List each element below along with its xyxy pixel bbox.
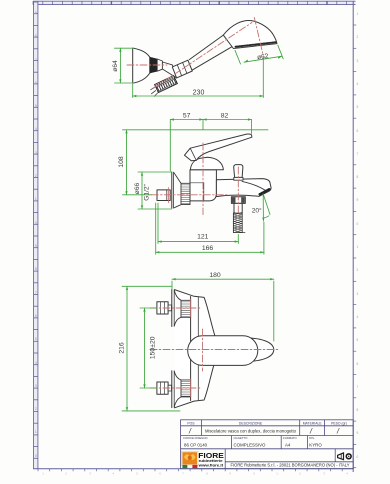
svg-text:0: 0 (35, 221, 37, 225)
svg-text:PESO (gr): PESO (gr) (331, 421, 347, 425)
left ruler digits (35, 11, 37, 458)
svg-text:www.fiore.it: www.fiore.it (197, 463, 223, 468)
spout outlet face (tilted, dark) (260, 189, 270, 194)
red tick bottom union (190, 379, 192, 397)
svg-text:9: 9 (35, 11, 37, 15)
svg-text:82: 82 (221, 112, 229, 119)
svg-text:DESCRIZIONE: DESCRIZIONE (239, 421, 263, 425)
dim 108 (123, 130, 269, 195)
projection symbol icons (338, 453, 352, 460)
braided hose (233, 213, 242, 232)
svg-text:1: 1 (35, 197, 37, 201)
svg-text:6: 6 (35, 314, 37, 318)
lever knob capsule (front) (188, 336, 258, 366)
svg-text:3: 3 (357, 292, 359, 296)
diverter knob (234, 165, 243, 178)
svg-text:20°: 20° (252, 207, 262, 215)
svg-text:4: 4 (357, 82, 359, 86)
svg-text:8: 8 (357, 175, 359, 179)
svg-text:8: 8 (35, 34, 37, 38)
svg-text:7: 7 (35, 291, 37, 295)
FIORE logo (181, 451, 223, 468)
red centerline along shower handle axis (153, 23, 252, 89)
svg-text:2: 2 (35, 174, 37, 178)
red main axis horizontal (150, 349, 278, 351)
svg-text:57: 57 (183, 112, 191, 119)
svg-text:G1/2”: G1/2” (144, 184, 151, 201)
svg-text:4: 4 (35, 361, 37, 365)
dim 150+-20 (140, 308, 157, 388)
hose nipple cylinder (234, 203, 242, 213)
svg-text:5: 5 (357, 105, 359, 109)
red vertical through knob (202, 329, 204, 371)
bottom wall union (157, 371, 191, 408)
svg-text:86 CP 0140: 86 CP 0140 (184, 442, 208, 447)
svg-text:5: 5 (35, 337, 37, 341)
red axis top union (150, 307, 200, 309)
svg-text:7: 7 (35, 58, 37, 62)
svg-text:POS: POS (187, 421, 195, 425)
border frame bottom line (33, 469, 354, 472)
svg-text:ø64: ø64 (112, 60, 119, 72)
svg-text:ø66: ø66 (134, 182, 141, 194)
svg-text:7: 7 (357, 152, 359, 156)
svg-text:9: 9 (35, 244, 37, 248)
cone adapter (157, 59, 162, 71)
title block texts (183, 421, 347, 440)
svg-text:1: 1 (357, 12, 359, 16)
red centerline diverter/hose vertical (237, 167, 239, 215)
red axis bottom union (150, 387, 200, 389)
svg-text:9: 9 (357, 198, 359, 202)
svg-text:CODICE DISEGNO: CODICE DISEGNO (183, 436, 208, 440)
handle shaft (189, 35, 223, 60)
mixer body silhouette (front/rotated view) (175, 290, 274, 408)
svg-text:MATERIALE: MATERIALE (303, 421, 323, 425)
top wall union (157, 290, 191, 327)
svg-text:5: 5 (35, 104, 37, 108)
spout (216, 179, 271, 197)
handle grip stub in cup (162, 62, 176, 78)
hose connection nut (231, 197, 245, 204)
svg-text:150±20: 150±20 (150, 336, 157, 359)
svg-text:8: 8 (357, 408, 359, 412)
red centerline wall pipe axis (151, 194, 228, 196)
wall escutcheon bell (171, 172, 173, 208)
svg-text:121: 121 (197, 234, 209, 241)
svg-text:2: 2 (35, 407, 37, 411)
svg-text:6: 6 (357, 362, 359, 366)
mixer body (190, 170, 216, 201)
svg-text:5: 5 (357, 338, 359, 342)
spray face dark band (236, 42, 276, 47)
conical wall support cup (133, 48, 150, 83)
hose nut on handle (172, 60, 192, 78)
bottom ruler digits (42, 471, 348, 475)
threaded nipple (hatched) (181, 183, 190, 204)
dim 180 (172, 279, 274, 341)
svg-text:8: 8 (35, 267, 37, 271)
red centerline horizontal through conical support (127, 64, 167, 66)
svg-text:3: 3 (35, 384, 37, 388)
svg-text:1: 1 (357, 245, 359, 249)
svg-text:180: 180 (209, 272, 221, 279)
dim 121 (158, 203, 238, 244)
red centerline body vertical (202, 143, 204, 215)
svg-text:0: 0 (35, 454, 37, 458)
lever handle (185, 134, 252, 161)
right ruler digits (357, 12, 359, 459)
svg-text:0: 0 (357, 455, 359, 459)
svg-text:0: 0 (357, 222, 359, 226)
svg-text:Miscelatore vasca con duplex,: Miscelatore vasca con duplex, doccia mon… (205, 429, 297, 434)
svg-text:6: 6 (357, 129, 359, 133)
dim 166 (156, 203, 264, 254)
dim o62 (235, 45, 283, 64)
border frame right line (353, 1, 356, 472)
svg-text:2: 2 (357, 35, 359, 39)
dim 216 (122, 286, 180, 411)
title block grid (181, 420, 354, 469)
dim 20 degrees (263, 194, 270, 221)
svg-text:7: 7 (357, 385, 359, 389)
svg-text:FORMATO: FORMATO (283, 436, 298, 440)
G1/2 wall connector square (157, 190, 170, 201)
svg-text:4: 4 (35, 127, 37, 131)
svg-text:DIS.: DIS. (309, 436, 315, 440)
svg-text:230: 230 (193, 90, 205, 97)
dim 230 (133, 57, 264, 98)
red centerline shower head axis (254, 18, 263, 55)
dim 57 and 82 (170, 120, 251, 172)
red tick top union (190, 299, 192, 317)
svg-text:3: 3 (35, 151, 37, 155)
border frame left ruler (34, 1, 38, 468)
cartridge dome cap (190, 157, 223, 170)
svg-text:1: 1 (35, 430, 37, 434)
svg-text:COMPLESSIVO: COMPLESSIVO (234, 442, 267, 447)
svg-text:2: 2 (357, 268, 359, 272)
svg-text:108: 108 (118, 156, 125, 168)
braided hose end (155, 76, 178, 93)
svg-text:216: 216 (119, 342, 126, 354)
svg-text:A4: A4 (285, 442, 291, 447)
rubber ring (dark band) (150, 57, 157, 73)
svg-text:166: 166 (202, 245, 214, 252)
svg-text:6: 6 (35, 81, 37, 85)
dim o66 and G1/2 (138, 172, 172, 209)
dim o64 (115, 48, 135, 83)
svg-text:4: 4 (357, 315, 359, 319)
frayed hose strands (151, 91, 155, 94)
svg-text:FIORE Rubinetterie S.r.l. - 28: FIORE Rubinetterie S.r.l. - 28021 BORGOM… (231, 463, 350, 468)
svg-text:OGGETTO: OGGETTO (234, 436, 249, 440)
svg-text:KYRO: KYRO (309, 442, 322, 447)
svg-text:3: 3 (357, 59, 359, 63)
red tick at G1/2 thread (167, 188, 169, 203)
border frame top ruler (33, 1, 356, 4)
shower head (223, 21, 277, 49)
svg-text:9: 9 (357, 431, 359, 435)
